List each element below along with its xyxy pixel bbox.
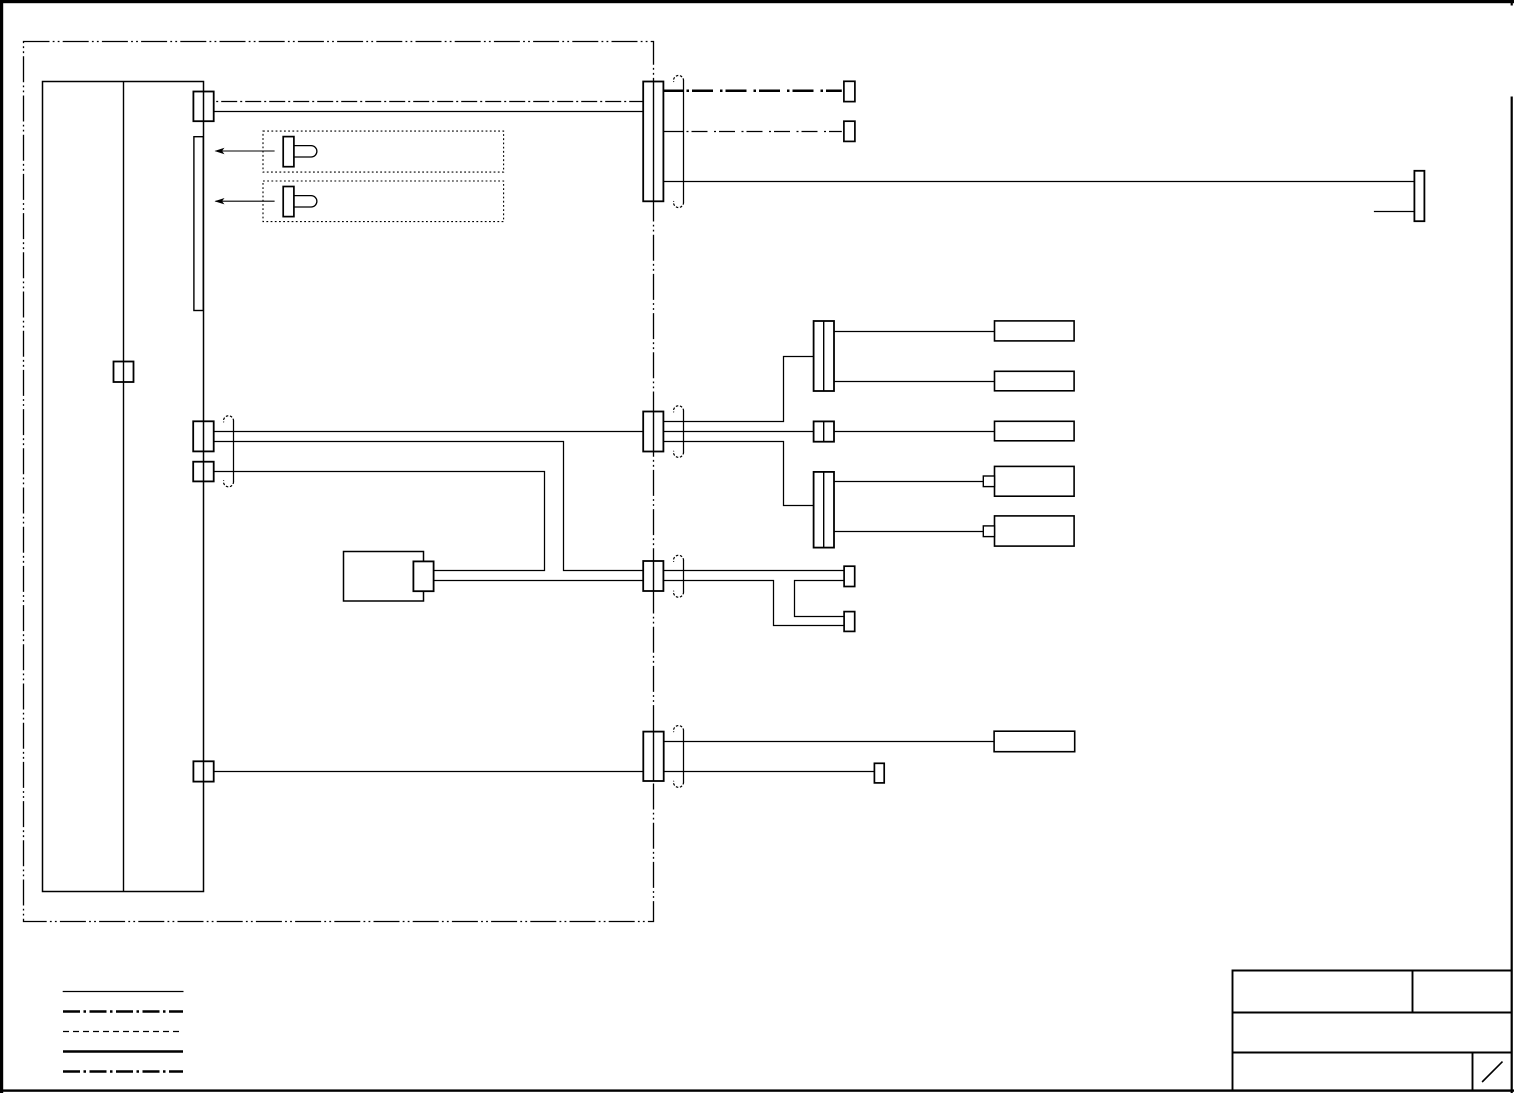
terminal T2 [844,121,855,141]
connector C3 [193,462,214,482]
legend line thin solid [63,991,184,993]
legend line thick dash-dot [63,1010,183,1013]
connector C4 [193,761,213,781]
wire W4 dash-dot from C10 to terminal T2 [663,131,683,133]
unit inner divider [123,82,125,892]
wire W13 C12 branch down to C17 [663,442,813,506]
title block diagonal [1482,1062,1502,1082]
legend line thick solid [63,1050,183,1053]
terminal T5 [874,763,884,783]
connector C15 [814,321,834,391]
wire W18 C17 to load B5 [834,531,983,533]
drawing frame right upper stub [1511,0,1513,6]
connector C1 [193,92,213,122]
in-line connector C18 [643,732,663,781]
wire W1 dash-dot C1 to C10 [214,101,644,103]
load B6 [994,731,1075,752]
wire W10 C14 to C13 [433,580,643,582]
connector C11 [1414,171,1424,221]
wire W7 C2 to C12 [214,431,644,433]
terminal T3 [844,566,855,586]
wire W12 C12 to C16 [663,431,813,433]
in-line connector C12 [643,412,663,452]
wire W23 C18 to load B6 [664,741,994,743]
wire W17 C17 to load B4 [834,481,983,483]
drawing frame bottom [0,1089,1514,1091]
harness bundle near C12 [674,406,684,458]
harness bundle near C13 [674,555,684,597]
load B2 [995,371,1075,391]
in-line connector C13 [643,561,663,591]
connector C2 [193,421,214,451]
terminal T4 [844,612,855,632]
wire W8 C2 to C13 [214,442,644,571]
wire W22 C4 to C18 [214,771,644,773]
harness bundle near C2/C3 [224,416,234,487]
load B5 with pin tab [983,516,1074,546]
wire W5 solid from C10 to connector C11 [663,181,1414,183]
in-line connector C10 [643,82,663,202]
drawing frame top [0,0,1514,3]
junction box / unit [43,82,204,892]
connector C16 [814,421,834,441]
bulb socket S2 [283,187,317,217]
wire W15 C15 to load B2 [834,381,995,383]
wire W21 T3 to T4 [795,581,845,617]
legend line thin dashed [63,1031,183,1033]
harness bundle near C18 [674,726,684,788]
vehicle-body boundary outline (dash-dot-dot) [24,42,654,922]
option dotted box D2 [263,181,504,222]
option dotted box D1 [263,131,504,172]
wire W3 thick dash-dot from C10 to terminal T1 [663,90,683,93]
relay square on divider [114,362,134,383]
connector C14 on B7 [413,561,433,591]
wire W16 C16 to load B3 [834,431,995,433]
wire W11 C12 branch up to C15 [663,357,813,422]
load B3 [995,421,1075,441]
drawing frame left [0,0,3,1093]
wire W9 C3 to C14 [214,472,545,571]
harness bundle near C10 [674,76,684,208]
wire W6 stub at C11 [1374,211,1415,213]
arrow A2 [215,198,275,204]
component box B7 [344,552,424,602]
connector C17 [814,472,834,548]
connector strip (narrow) on unit edge [194,137,203,311]
wire W2 solid C1 to C10 [214,111,644,113]
wire W19 C13 to terminal T3 [663,570,844,572]
drawing frame right [1511,97,1513,1094]
wire W24 C18 to terminal T5 [664,771,875,773]
legend line thick dash-dot 2 [63,1070,183,1073]
terminal T1 [844,81,855,101]
wire W14 C15 to load B1 [834,331,995,333]
wire W20 C13 branch to terminal T4 [663,581,844,626]
load B4 with pin tab [983,466,1074,496]
bulb socket S1 [283,137,317,167]
title block [1233,971,1512,1091]
load B1 [995,321,1075,341]
arrow A1 [215,148,275,154]
